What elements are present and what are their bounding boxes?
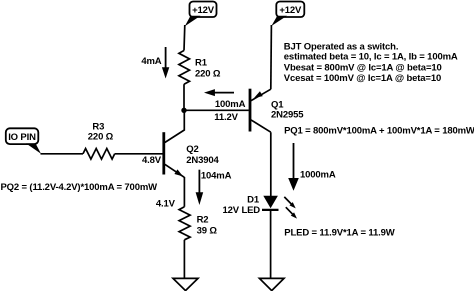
svg-text:PLED = 11.9V*1A = 11.9W: PLED = 11.9V*1A = 11.9W [284,228,394,239]
ground (left) [173,278,198,290]
current arrow 1000mA [288,143,336,191]
svg-text:4mA: 4mA [141,56,161,67]
svg-text:1000mA: 1000mA [300,170,336,181]
wire: node A to Q1 base [184,109,249,111]
power flag +12V (right, feeds Q1 emitter) [271,2,304,27]
svg-text:220 Ω: 220 Ω [195,68,221,79]
wire: R3 to Q2 base [115,153,163,155]
wire: R2 to ground [183,240,185,278]
svg-text:Vbesat = 800mV @ Ic=1A @ beta=: Vbesat = 800mV @ Ic=1A @ beta=10 [284,62,442,73]
svg-text:104mA: 104mA [201,170,232,181]
svg-text:PQ2 = (11.2V-4.2V)*100mA = 700: PQ2 = (11.2V-4.2V)*100mA = 700mW [1,182,158,193]
transistor Q1 2N2955 (PNP) [250,89,304,133]
current arrow 4mA [141,47,169,79]
resistor R3 [83,121,115,159]
svg-text:12V LED: 12V LED [223,205,261,216]
wire: Q2 emitter to R2 [183,177,185,207]
svg-text:11.2V: 11.2V [214,112,238,123]
svg-text:estimated beta = 10, Ic = 1A,: estimated beta = 10, Ic = 1A, Ib = 100mA [284,52,458,63]
svg-text:D1: D1 [247,194,260,205]
node A junction dot [181,108,186,113]
resistor R1 [179,51,221,85]
wire: left +12V flag to R1 top [183,25,186,51]
svg-text:2N2955: 2N2955 [271,110,304,121]
svg-text:220 Ω: 220 Ω [88,131,114,142]
svg-text:4.8V: 4.8V [142,155,162,166]
wire: IO PIN to R3 [41,153,84,155]
ground (right) [259,278,284,290]
svg-text:Q2: Q2 [186,144,198,155]
svg-text:100mA: 100mA [215,99,246,110]
annotation text block [284,41,458,84]
wire: D1 to ground [270,210,272,278]
power flag +12V (left, feeds R1) [185,2,217,27]
LED D1 [223,194,298,218]
current arrow 100mA (base current, pointing left) [204,89,246,110]
transistor Q2 2N3904 (NPN) [164,110,220,177]
svg-text:39 Ω: 39 Ω [197,225,218,236]
wire: R1 bottom to node A [183,84,185,110]
wire: right +12V flag to Q1 emitter [270,25,273,89]
svg-text:R1: R1 [195,57,208,68]
svg-text:2N3904: 2N3904 [186,155,219,166]
wire: Q1 collector to D1 [270,132,272,196]
svg-text:+12V: +12V [192,5,215,16]
svg-text:4.1V: 4.1V [156,198,176,209]
svg-text:Vcesat = 100mV @ Ic=1A @ beta=: Vcesat = 100mV @ Ic=1A @ beta=10 [284,73,441,84]
svg-text:IO PIN: IO PIN [8,132,36,143]
svg-text:R2: R2 [197,214,209,225]
svg-text:PQ1 = 800mV*100mA + 100mV*1A =: PQ1 = 800mV*100mA + 100mV*1A = 180mW [284,126,474,137]
current arrow 104mA [196,170,232,205]
IO PIN flag [6,128,41,154]
svg-text:+12V: +12V [279,5,302,16]
resistor R2 [179,207,217,240]
